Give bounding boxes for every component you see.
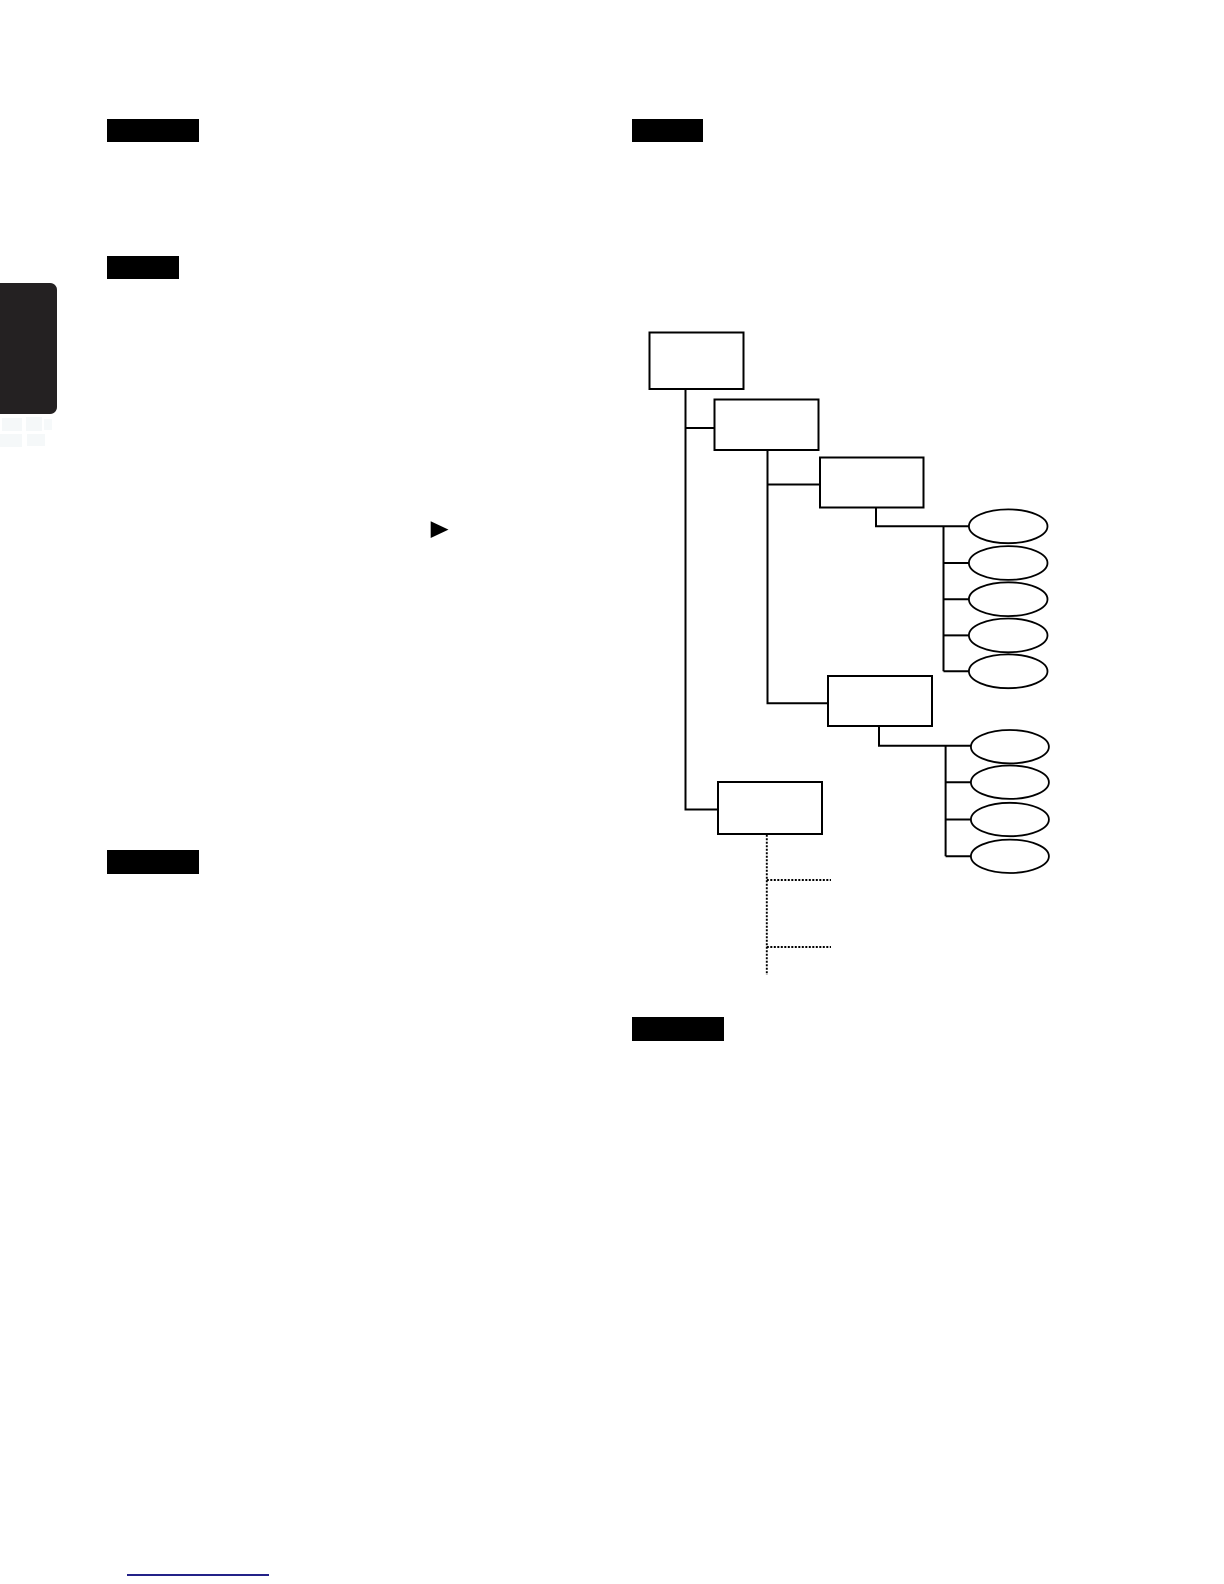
ellipse 2-1 xyxy=(971,730,1049,763)
wire: trunk 2 stub 4 xyxy=(946,855,971,857)
wire: D bottom to ellipse group 2 xyxy=(879,726,971,746)
ellipse 2-4 xyxy=(971,840,1049,873)
heading bar H5 (right column, lower) xyxy=(632,1017,724,1042)
heading bar H1 (left column top) xyxy=(107,119,199,142)
wire: stub to box C xyxy=(768,484,821,486)
wire: B bottom vertical, elbow to box D xyxy=(768,450,829,703)
heading bar H3 (left column, second) xyxy=(107,256,179,279)
ellipse 1-1 xyxy=(969,509,1048,543)
wire: stub to box B xyxy=(686,427,715,429)
ellipse 2-3 xyxy=(971,803,1049,836)
wire: trunk 1 stub 2 xyxy=(944,562,970,564)
ellipse 1-4 xyxy=(969,619,1048,653)
blue footer rule xyxy=(127,1574,270,1576)
wire: trunk 1 stub 4 xyxy=(944,634,970,636)
ellipse 2-2 xyxy=(971,766,1049,799)
wire: dotted vertical below box E xyxy=(766,835,768,975)
wire: trunk 2 stub 2 xyxy=(946,781,971,783)
wire: C bottom to ellipse group 1 xyxy=(876,508,969,527)
flowchart box C xyxy=(820,458,924,508)
heading bar H4 (left column, third) xyxy=(107,850,199,873)
wire: trunk 1 stub 3 xyxy=(944,598,970,600)
wire: dotted stub 2 xyxy=(767,946,831,948)
section tab (left page edge, dark rounded) xyxy=(0,283,57,414)
flowchart box E xyxy=(718,782,822,834)
ellipse 1-2 xyxy=(969,546,1048,580)
wire: A bottom long vertical, elbow to box E xyxy=(686,389,719,810)
flowchart box D xyxy=(828,676,932,726)
wire: trunk 1 vertical xyxy=(943,526,945,671)
wire: trunk 2 stub 3 xyxy=(946,819,971,821)
heading bar H2 (right column top) xyxy=(632,119,703,142)
ellipse 1-3 xyxy=(969,582,1048,616)
wire: trunk 2 vertical xyxy=(945,746,947,857)
ellipse 1-5 xyxy=(969,654,1048,688)
flowchart box B xyxy=(715,400,819,451)
flowchart box A (root) xyxy=(650,333,744,390)
wire: trunk 1 stub 5 xyxy=(944,670,970,672)
wire: dotted stub 1 xyxy=(767,879,831,881)
ghost glyphs below tab (very faint) xyxy=(0,417,54,449)
